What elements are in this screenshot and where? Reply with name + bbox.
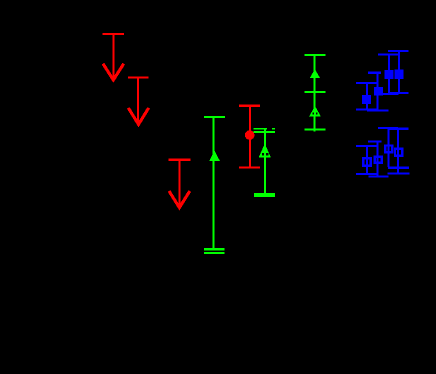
blue filled errorbar E4: vertical line bbox=[398, 52, 400, 92]
green errorbar 3: open triangle marker (drawn filled) bbox=[309, 106, 321, 117]
red upper-limit arrow 1: top cap bbox=[103, 33, 124, 35]
blue filled errorbar E2: vertical line bbox=[377, 74, 379, 111]
blue filled errorbar E1: vertical line bbox=[366, 84, 368, 110]
blue open errorbar F3: open square marker bbox=[385, 146, 392, 153]
green errorbar 2: thick bottom cap bbox=[254, 193, 275, 197]
green errorbar 2: top cap a bbox=[254, 128, 275, 130]
red errorbar: vertical line bbox=[249, 107, 251, 167]
blue filled errorbar E4: filled square marker bbox=[395, 70, 404, 79]
blue open errorbar F2: top cap bbox=[368, 140, 382, 142]
green errorbar 1: vertical line bbox=[213, 118, 215, 251]
blue open errorbar F4: bottom cap bbox=[388, 172, 410, 174]
green errorbar 2: top cap b bbox=[254, 131, 275, 133]
blue open errorbar F4: vertical line bbox=[397, 130, 399, 174]
red errorbar: filled circle marker bbox=[245, 130, 255, 140]
green errorbar 2: black occlusion on top cap a bbox=[267, 128, 272, 130]
green errorbar 3: vertical line bbox=[314, 56, 316, 132]
green errorbar 3: triangle hole left bbox=[312, 112, 314, 114]
green errorbar 1: filled triangle marker bbox=[209, 150, 220, 161]
blue open errorbar F3: vertical line bbox=[387, 129, 389, 167]
blue open errorbar F1: top cap bbox=[356, 145, 377, 147]
red upper-limit arrow 2: arrowhead bbox=[128, 108, 148, 125]
blue open errorbar F4: top cap bbox=[388, 128, 409, 130]
blue filled errorbar E2: top cap bbox=[368, 72, 381, 74]
red upper-limit arrow 2: top cap bbox=[128, 76, 149, 78]
blue open errorbar F3: top cap bbox=[378, 127, 398, 129]
blue filled errorbar E2: filled square marker bbox=[374, 87, 383, 96]
green errorbar 1: top cap bbox=[204, 116, 225, 118]
blue filled errorbar E1: top cap bbox=[356, 82, 377, 84]
green errorbar 2: triangle hole right bbox=[266, 153, 268, 156]
blue open errorbar F4: open square marker bbox=[395, 149, 402, 156]
red upper-limit arrow 1: shaft bbox=[112, 35, 114, 79]
blue filled errorbar E1: filled square marker bbox=[362, 95, 371, 104]
blue filled errorbar E3: bottom cap bbox=[378, 93, 398, 95]
blue filled errorbar E3: vertical line bbox=[388, 56, 390, 94]
blue open errorbar F2: vertical line bbox=[377, 142, 379, 176]
green errorbar 2: vertical line bbox=[264, 128, 266, 195]
blue open errorbar F2: open square marker bbox=[375, 157, 382, 163]
green errorbar 3: filled triangle marker bbox=[310, 69, 320, 78]
green errorbar 1: lower cap b bbox=[204, 252, 225, 254]
blue open errorbar F1: bottom cap bbox=[356, 173, 378, 175]
green errorbar 3: bottom cap bbox=[305, 129, 326, 131]
red upper-limit arrow 3: arrowhead bbox=[169, 191, 190, 208]
blue open errorbar F1: vertical line bbox=[366, 147, 368, 173]
blue open errorbar F3: bottom cap bbox=[388, 167, 409, 169]
red upper-limit arrow 1: arrowhead bbox=[103, 64, 124, 80]
green errorbar 3: top cap bbox=[305, 54, 326, 56]
blue open errorbar F2: bottom cap bbox=[369, 175, 389, 177]
red upper-limit arrow 3: top cap bbox=[169, 159, 191, 161]
blue filled errorbar E2: bottom cap bbox=[367, 109, 389, 111]
red upper-limit arrow 3: shaft bbox=[178, 161, 180, 206]
red errorbar: bottom cap bbox=[239, 167, 260, 169]
blue filled errorbar E1: bottom cap bbox=[356, 109, 378, 111]
green errorbar 1: lower cap a bbox=[204, 248, 225, 250]
blue open errorbar F1: open square marker bbox=[363, 158, 371, 166]
blue filled errorbar E3: filled square marker bbox=[385, 70, 394, 79]
green errorbar 3: middle cap bbox=[305, 91, 326, 93]
red errorbar: top cap bbox=[239, 105, 260, 107]
green errorbar 2: open triangle marker (drawn filled) bbox=[259, 143, 271, 157]
green errorbar 3: triangle hole right bbox=[316, 112, 318, 114]
blue filled errorbar E4: bottom cap bbox=[388, 92, 408, 94]
red upper-limit arrow 2: shaft bbox=[137, 78, 139, 122]
green errorbar 2: triangle hole left bbox=[262, 153, 264, 156]
blue filled errorbar E4: top cap bbox=[388, 50, 409, 52]
blue filled errorbar E3: top cap bbox=[378, 54, 398, 56]
